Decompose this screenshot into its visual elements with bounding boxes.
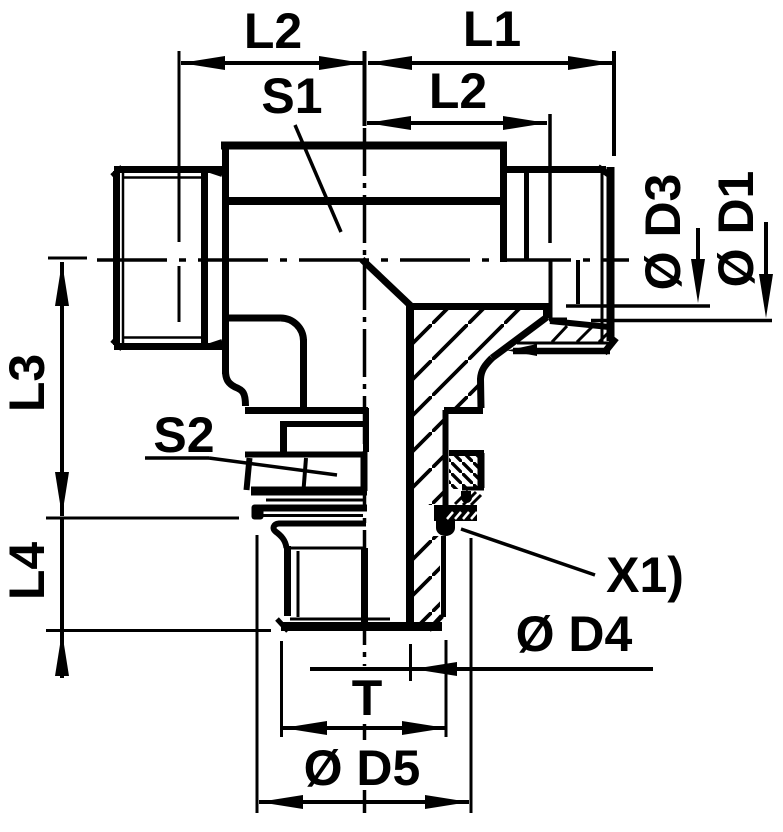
svg-text:Ø D1: Ø D1 [708, 171, 764, 288]
dimension D1 arrow [591, 222, 773, 321]
leader S1 [295, 125, 341, 232]
svg-text:L3: L3 [0, 354, 55, 412]
body outline [221, 142, 547, 623]
leader X1 [461, 529, 595, 575]
extension lines [46, 51, 614, 813]
dimension L4 [55, 518, 69, 678]
hatch region body upper [412, 306, 546, 413]
dimension D5 [259, 795, 469, 809]
svg-text:X1): X1) [606, 547, 684, 603]
seal X1 [434, 505, 477, 536]
branch stack left external view [245, 452, 444, 631]
right port [504, 167, 616, 356]
branch right section details [446, 410, 485, 506]
left port [112, 167, 223, 349]
svg-text:L2: L2 [244, 3, 302, 59]
hatch region locknut section [449, 456, 478, 489]
centerline horizontal [48, 258, 629, 260]
centerline vertical [363, 128, 367, 813]
svg-text:Ø D3: Ø D3 [635, 174, 691, 291]
svg-text:T: T [352, 670, 383, 726]
dimension L3 [55, 262, 69, 516]
svg-text:L2: L2 [429, 63, 487, 119]
dimension D3 arrow [566, 228, 710, 306]
svg-text:S2: S2 [153, 407, 214, 463]
hatch region branch neck [412, 413, 444, 505]
hatch region right port bottom [552, 326, 609, 342]
dimension D4 [310, 662, 653, 676]
svg-text:S1: S1 [261, 68, 322, 124]
dimension T [283, 721, 446, 735]
dimension L2 inner [367, 116, 547, 130]
dimension L2 top [181, 56, 363, 70]
svg-text:L1: L1 [463, 1, 521, 57]
leader S2 [145, 458, 337, 475]
svg-text:L4: L4 [0, 542, 55, 601]
hatch region stud wall [412, 536, 440, 622]
svg-text:Ø D5: Ø D5 [304, 740, 421, 796]
svg-text:Ø D4: Ø D4 [516, 606, 633, 662]
dimension L1 [368, 56, 612, 70]
